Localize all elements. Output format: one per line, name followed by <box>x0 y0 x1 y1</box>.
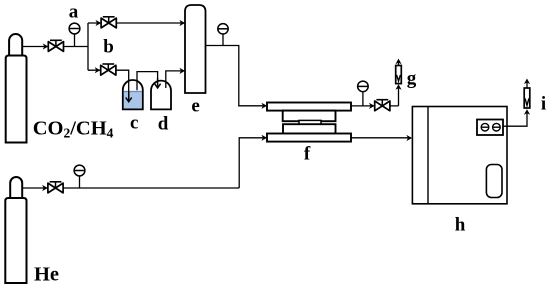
svg-text:g: g <box>407 68 417 89</box>
svg-text:f: f <box>304 144 311 165</box>
svg-text:d: d <box>158 113 169 134</box>
svg-text:b: b <box>103 37 114 58</box>
svg-text:c: c <box>130 113 138 134</box>
svg-text:a: a <box>69 2 79 23</box>
svg-text:h: h <box>455 215 466 236</box>
svg-text:i: i <box>541 94 546 115</box>
svg-text:CO2/CH4: CO2/CH4 <box>33 117 114 140</box>
svg-text:e: e <box>191 95 199 116</box>
svg-text:He: He <box>34 264 59 286</box>
